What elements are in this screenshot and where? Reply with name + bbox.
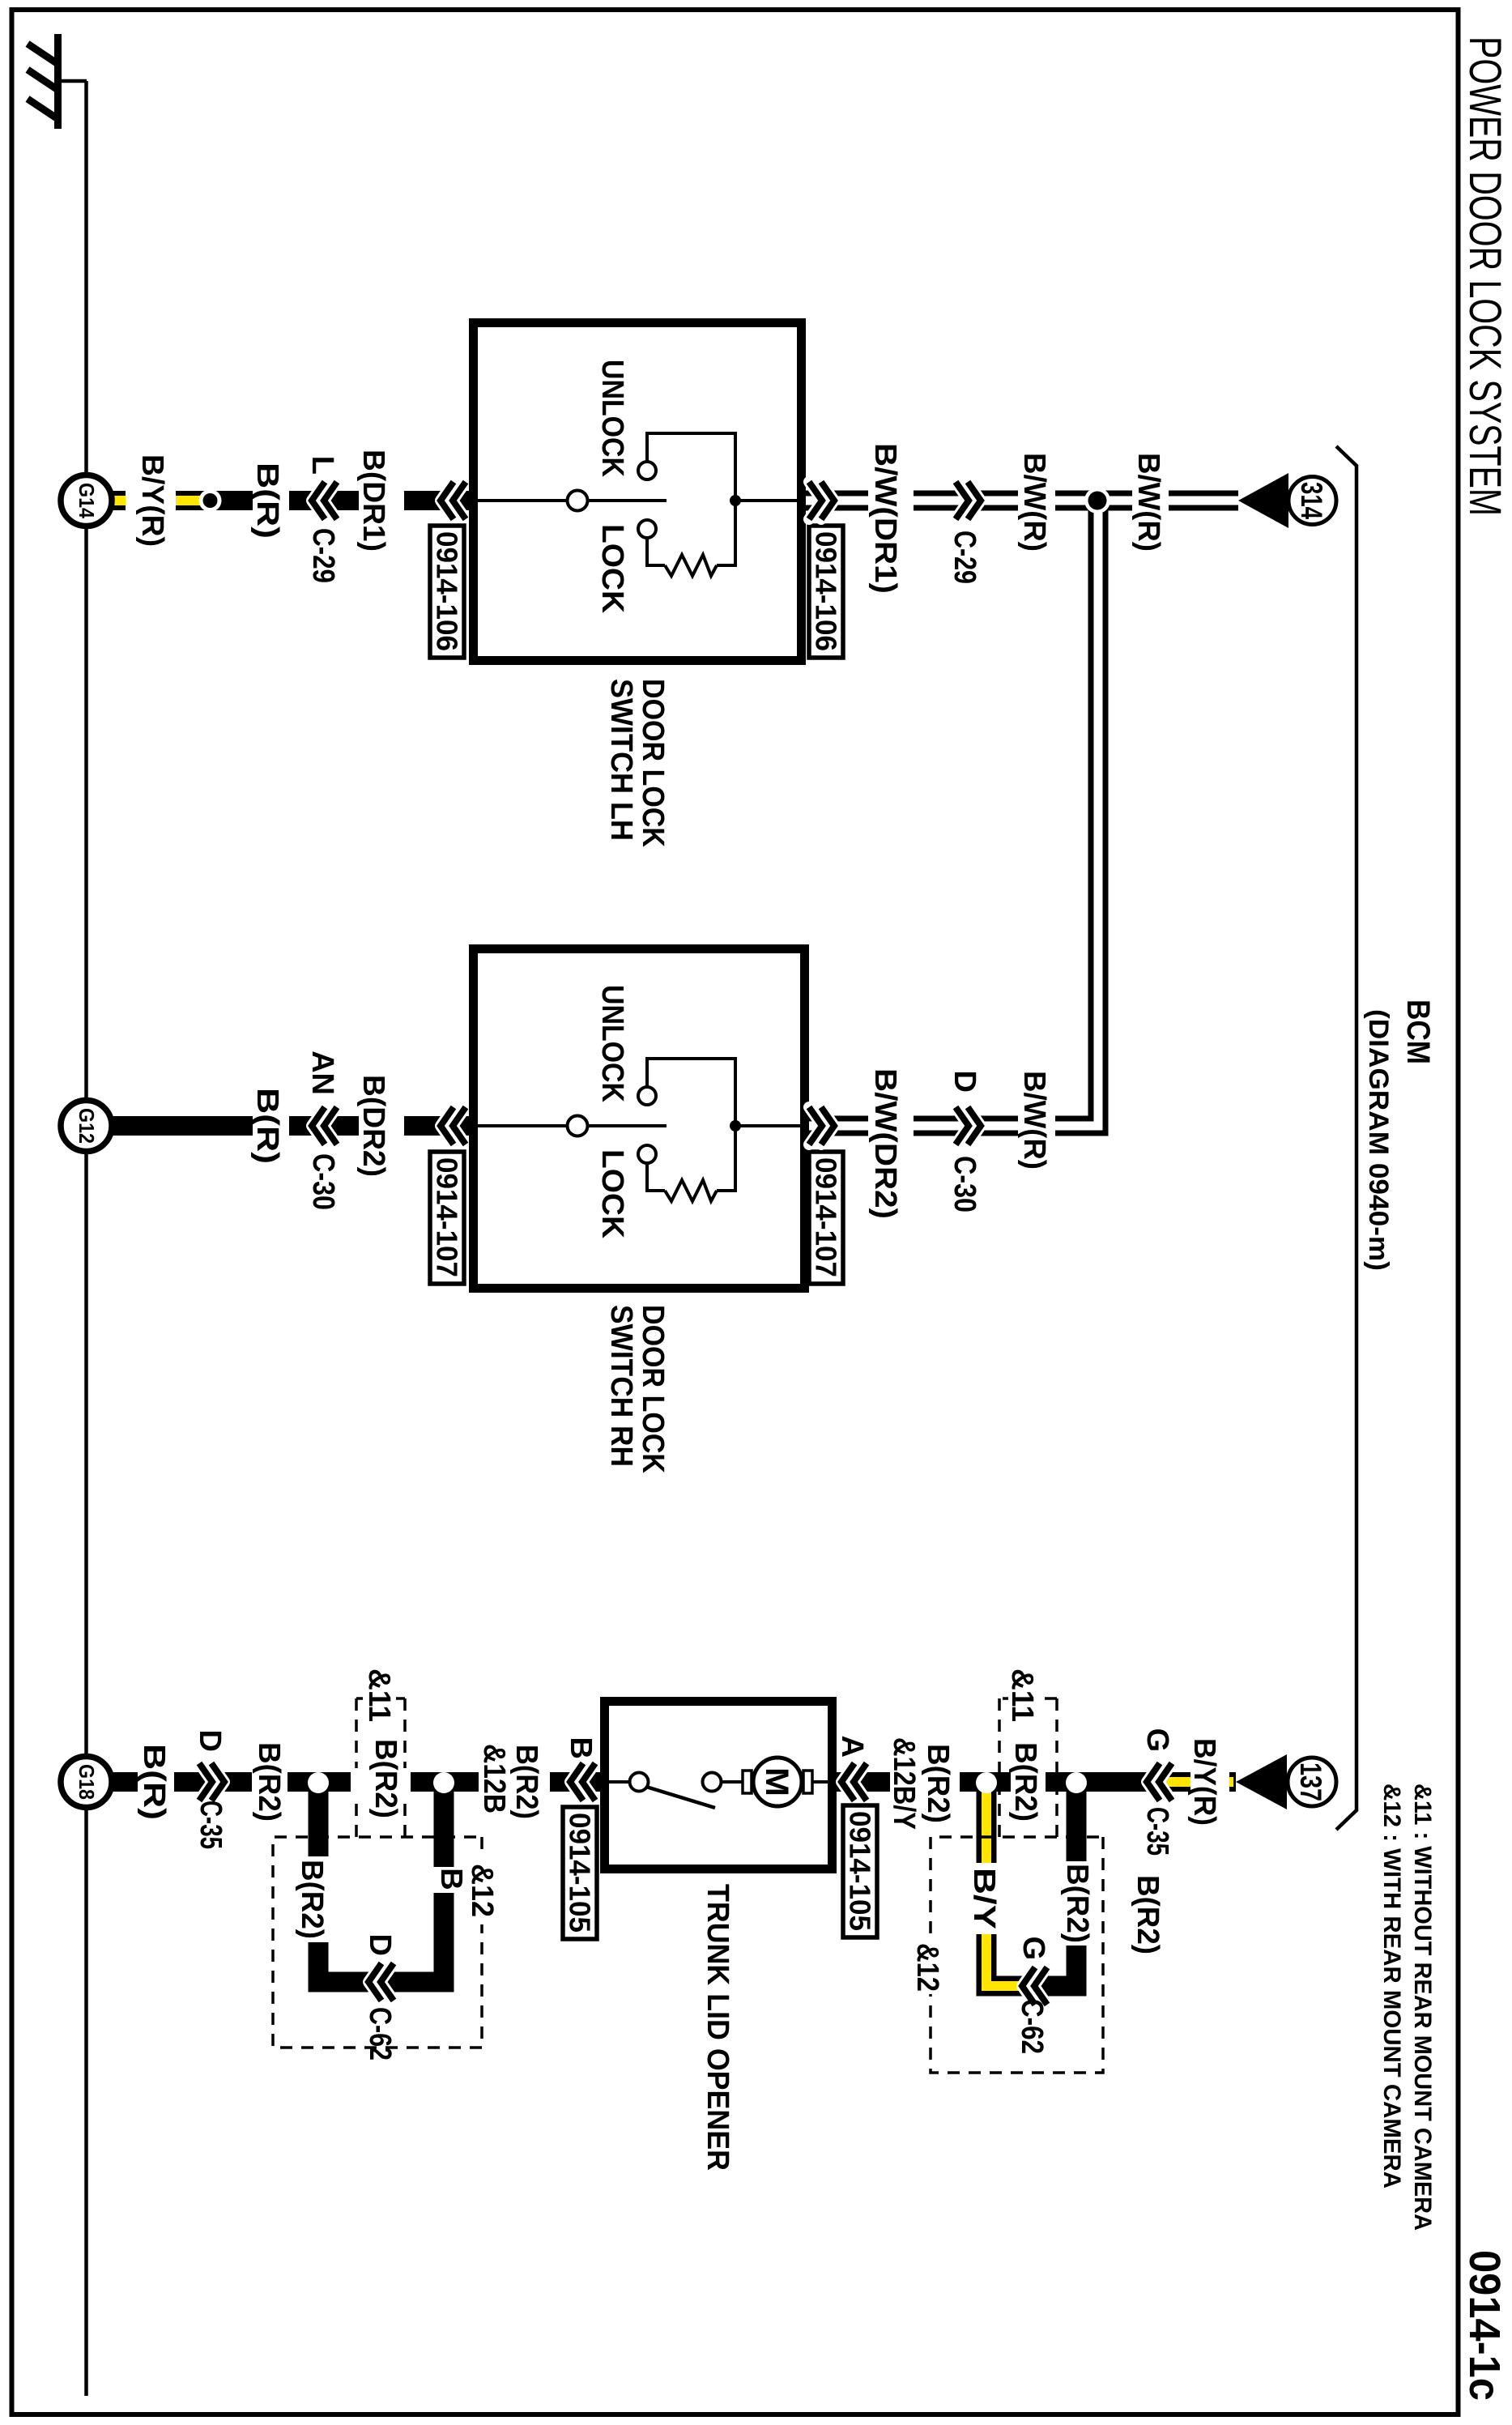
connector label 0914-105 (bottom) bbox=[563, 1807, 597, 1939]
svg-text:DOOR LOCK: DOOR LOCK bbox=[636, 679, 670, 847]
wire gap for label B(DR2) bbox=[359, 1112, 404, 1140]
svg-text:A: A bbox=[835, 1736, 869, 1758]
LOCK contact circle RH bbox=[638, 1145, 656, 1163]
svg-text:B/Y(R): B/Y(R) bbox=[1187, 1738, 1221, 1826]
connector C-35 chevron (ground side) bbox=[199, 1763, 224, 1801]
trunk switch blade bbox=[646, 1787, 715, 1808]
splice dot on B/Y(R) bbox=[199, 489, 222, 512]
connector 0914-106 exit chevron bbox=[809, 482, 834, 519]
switch arm bbox=[588, 499, 667, 502]
svg-text:&11 : WITHOUT REAR MOUNT CAMER: &11 : WITHOUT REAR MOUNT CAMERA bbox=[1409, 1784, 1436, 2231]
pin D label C-62 left bbox=[363, 1934, 397, 1956]
label &12 (right) bbox=[910, 1937, 945, 1994]
label B/W(DR1) bbox=[868, 443, 902, 594]
svg-text:SWITCH RH: SWITCH RH bbox=[604, 1305, 638, 1467]
connector label 0914-106 (bottom) bbox=[430, 526, 464, 658]
pin L label bbox=[305, 456, 339, 475]
svg-text:B(DR1): B(DR1) bbox=[356, 450, 390, 552]
svg-text:B(R2): B(R2) bbox=[1131, 1875, 1165, 1954]
connector label 0914-107 (bottom) bbox=[430, 1152, 464, 1284]
svg-text:LOCK: LOCK bbox=[595, 524, 629, 614]
trunk switch contact 1 bbox=[630, 1773, 649, 1792]
svg-text:C-29: C-29 bbox=[306, 528, 340, 583]
connector name C-29 (BCM side) bbox=[948, 531, 982, 584]
connector 0914-107 exit chevron bbox=[809, 1107, 834, 1144]
wire gap for label B/W(DR1) bbox=[868, 486, 914, 515]
svg-text:B(R): B(R) bbox=[137, 1744, 171, 1820]
wire gap for label &11 B(R2) trunk bbox=[351, 1768, 411, 1796]
svg-text:B/W(R): B/W(R) bbox=[1017, 1071, 1051, 1170]
&12 loop left: wire B(R2) from junctions to C-62 bbox=[318, 1783, 444, 1982]
ground node G12 bbox=[61, 1101, 112, 1152]
resistor R (door lock switch LH) bbox=[665, 555, 717, 576]
connector name C-62 left bbox=[363, 2007, 397, 2061]
connector C-62 chevron (left loop) bbox=[368, 1963, 394, 2001]
pin AN label bbox=[305, 1051, 339, 1095]
pin B label trunk bbox=[564, 1737, 598, 1759]
connector C-29 chevron (BCM side) bbox=[956, 482, 981, 519]
component name TRUNK LID OPENER bbox=[701, 1884, 735, 2171]
svg-text:C-62: C-62 bbox=[1015, 1999, 1049, 2054]
label B(R2) in &11 box right bbox=[1008, 1742, 1042, 1822]
wire resistor to junction bbox=[717, 501, 735, 565]
motor M circle bbox=[753, 1758, 802, 1806]
wire gap for label &11 B(R2) right bbox=[1011, 1768, 1046, 1796]
svg-text:B/W(R): B/W(R) bbox=[1017, 453, 1051, 552]
svg-text:&12 : WITH REAR MOUNT CAMERA: &12 : WITH REAR MOUNT CAMERA bbox=[1378, 1784, 1405, 2188]
trunk lid opener box bbox=[605, 1702, 833, 1869]
switch arm RH bbox=[588, 1124, 667, 1127]
svg-text:DOOR LOCK: DOOR LOCK bbox=[636, 1305, 670, 1473]
label &12 (left) bbox=[465, 1858, 500, 1924]
dashed box &12 (left) bbox=[273, 1837, 482, 2048]
pin G label C-62 right bbox=[1016, 1936, 1050, 1960]
connector label 0914-106 (top) bbox=[809, 526, 843, 658]
&12 loop right: wire B/Y and B(R2) to C-62 bbox=[986, 1783, 1076, 1986]
svg-text:C-30: C-30 bbox=[948, 1156, 982, 1212]
svg-text:B(R2): B(R2) bbox=[921, 1744, 955, 1823]
label &11 (right) bbox=[1005, 1662, 1039, 1725]
label B(R2) on right loop bbox=[1060, 1864, 1094, 1943]
wire gap for label B/W(R) bbox=[1018, 486, 1055, 515]
svg-text:L: L bbox=[305, 456, 339, 475]
dashed box &11 (left) bbox=[356, 1698, 405, 1837]
label B(R2) in &11 box left bbox=[368, 1739, 402, 1818]
interior wire entry to contact trunk bbox=[605, 1780, 629, 1784]
connector 0914-105 exit chevron bbox=[841, 1763, 867, 1801]
svg-text:(DIAGRAM 0940-m): (DIAGRAM 0940-m) bbox=[1363, 1009, 1394, 1271]
svg-text:G18: G18 bbox=[75, 1764, 99, 1800]
svg-text:B/Y(R): B/Y(R) bbox=[135, 454, 169, 547]
label B/W(R) bbox=[1017, 453, 1051, 552]
label B/Y bbox=[967, 1868, 1001, 1929]
component name DOOR LOCK SWITCH RH bbox=[604, 1305, 670, 1473]
wire gap for label B(R) trunk bbox=[138, 1768, 174, 1796]
LOCK contact circle bbox=[638, 520, 656, 538]
interior wire junction to exit bbox=[735, 499, 801, 502]
svg-text:C-30: C-30 bbox=[306, 1153, 340, 1210]
svg-text:&12: &12 bbox=[465, 1864, 499, 1917]
connector 0914-107 entry chevron bbox=[441, 1107, 466, 1144]
LOCK contact wire bbox=[647, 538, 665, 565]
svg-text:B(R): B(R) bbox=[250, 1088, 284, 1164]
connector 0914-105 entry chevron bbox=[570, 1763, 595, 1801]
common contact circle RH bbox=[568, 1116, 588, 1136]
svg-text:B: B bbox=[434, 1868, 468, 1890]
svg-text:B(R2): B(R2) bbox=[252, 1742, 286, 1822]
svg-text:0914-1c: 0914-1c bbox=[1460, 2250, 1509, 2401]
circle reference 314 bbox=[1288, 477, 1336, 525]
connector name C-35 (BCM side) bbox=[1140, 1807, 1174, 1856]
svg-text:&12B/Y: &12B/Y bbox=[887, 1737, 921, 1830]
arrow to 137 bbox=[1236, 1754, 1287, 1809]
yellow stripe B/Y(R) trunk top bbox=[1158, 1777, 1233, 1787]
svg-text:B/W(DR1): B/W(DR1) bbox=[868, 443, 902, 594]
svg-text:G12: G12 bbox=[75, 1108, 99, 1144]
connector label 0914-105 (top) bbox=[843, 1805, 877, 1937]
connector label 0914-107 (top) bbox=[809, 1152, 843, 1284]
svg-text:G: G bbox=[1016, 1936, 1050, 1960]
dashed box &12 (right) bbox=[931, 1837, 1103, 2073]
svg-text:B(R2): B(R2) bbox=[368, 1739, 402, 1818]
UNLOCK contact wire to junction bbox=[647, 433, 735, 501]
wire gap for labels B(R2) / &12B/Y bbox=[890, 1768, 960, 1796]
common contact circle bbox=[568, 491, 588, 511]
svg-text:&11: &11 bbox=[362, 1669, 396, 1722]
label B/W(R) RH bbox=[1017, 1071, 1051, 1170]
svg-text:0914-106: 0914-106 bbox=[810, 531, 843, 651]
note &12 with rear mount camera bbox=[1378, 1784, 1405, 2188]
svg-text:B(R2): B(R2) bbox=[1008, 1742, 1042, 1822]
label B(R) RH bbox=[250, 1088, 284, 1164]
label B(R2) trunk lower bbox=[252, 1742, 286, 1822]
wire resistor to junction RH bbox=[717, 1126, 735, 1191]
connector C-29 chevron (ground side) bbox=[312, 482, 337, 519]
title: POWER DOOR LOCK SYSTEM bbox=[1460, 36, 1511, 516]
wire gap for label B(R) bbox=[253, 487, 289, 514]
svg-text:&11: &11 bbox=[1005, 1669, 1039, 1722]
svg-text:M: M bbox=[759, 1767, 794, 1796]
svg-text:B(R2): B(R2) bbox=[509, 1745, 543, 1819]
connector C-30 chevron (BCM side) bbox=[956, 1107, 981, 1144]
svg-text:B(R2): B(R2) bbox=[1060, 1864, 1094, 1943]
UNLOCK contact circle bbox=[638, 462, 656, 479]
wire gap for labels B(R2) / &12B bbox=[479, 1768, 550, 1796]
svg-text:137: 137 bbox=[1294, 1762, 1327, 1801]
junction dot C trunk bbox=[976, 1772, 997, 1793]
label &12B bbox=[477, 1744, 511, 1813]
svg-text:G14: G14 bbox=[75, 483, 99, 518]
wire gap for label B/W(DR2) bbox=[868, 1111, 914, 1140]
label B(R2) on loop bbox=[295, 1860, 329, 1939]
wire gap for label B/Y(R) trunk bbox=[1190, 1768, 1229, 1796]
label B(R2) above junction D bbox=[1131, 1875, 1165, 1954]
wire gap for label B/W(R) RH bbox=[1018, 1111, 1055, 1140]
svg-text:0914-105: 0914-105 bbox=[564, 1813, 597, 1933]
wire B(R)/B(DR2) from G12 to door lock switch RH bbox=[113, 1116, 469, 1136]
svg-text:C-62: C-62 bbox=[363, 2007, 397, 2061]
resistor R (door lock switch RH) bbox=[665, 1180, 717, 1201]
junction dot A trunk bbox=[308, 1772, 329, 1793]
svg-text:B(DR2): B(DR2) bbox=[356, 1075, 390, 1177]
UNLOCK contact circle RH bbox=[638, 1087, 656, 1105]
wire B/W from switch LH to BCM (vertical) bbox=[806, 491, 1240, 511]
svg-text:AN: AN bbox=[305, 1051, 339, 1095]
svg-text:D: D bbox=[193, 1730, 227, 1752]
wire B(R)/B(R2) from G18 to trunk lid opener bbox=[113, 1772, 600, 1792]
wire gap for label B/Y(R) bbox=[126, 487, 176, 514]
svg-text:LOCK: LOCK bbox=[595, 1149, 629, 1239]
wire B(R2)/B/Y(R) from trunk lid opener to BCM bbox=[837, 1772, 1236, 1792]
junction dot B trunk bbox=[433, 1772, 454, 1793]
pin G label C-35 bbox=[1140, 1728, 1174, 1752]
wire gap for label B on loop bbox=[433, 1867, 455, 1893]
label B pin on loop bbox=[434, 1868, 468, 1890]
svg-text:UNLOCK: UNLOCK bbox=[595, 985, 629, 1102]
wire gap for label B(R2) on right loop bbox=[1065, 1861, 1088, 1946]
svg-text:0914-107: 0914-107 bbox=[810, 1157, 843, 1277]
branch wire B/W(R) from RH switch joining LH wire bbox=[809, 501, 1098, 1126]
note &11 without rear mount camera bbox=[1409, 1784, 1436, 2231]
svg-text:314: 314 bbox=[1295, 482, 1328, 519]
svg-text:C-35: C-35 bbox=[194, 1801, 228, 1849]
svg-text:0914-106: 0914-106 bbox=[431, 531, 464, 651]
pin A label trunk bbox=[835, 1736, 869, 1758]
interior junction dot RH bbox=[730, 1120, 741, 1132]
label &11 (left) bbox=[362, 1662, 396, 1725]
BCM bracket bbox=[1336, 446, 1357, 1830]
label B(DR1) bbox=[356, 450, 390, 552]
connector name C-35 bbox=[194, 1801, 228, 1849]
motor brush upper bbox=[803, 1771, 812, 1793]
svg-text:SWITCH LH: SWITCH LH bbox=[604, 679, 638, 841]
svg-text:&12B: &12B bbox=[477, 1744, 511, 1813]
svg-text:C-35: C-35 bbox=[1140, 1807, 1174, 1856]
junction dot D trunk bbox=[1066, 1772, 1087, 1793]
svg-text:B/Y: B/Y bbox=[967, 1868, 1001, 1929]
svg-text:D: D bbox=[363, 1934, 397, 1956]
interior wire from entry to common contact bbox=[474, 499, 566, 502]
label B/W(DR2) bbox=[868, 1068, 902, 1219]
ground bus wire bbox=[84, 81, 88, 2396]
pin D label C-30 bbox=[948, 1071, 982, 1093]
yellow stripe on right loop bbox=[986, 1783, 1025, 1986]
svg-text:B: B bbox=[564, 1737, 598, 1759]
BCM label bbox=[1400, 999, 1436, 1064]
UNLOCK contact wire RH bbox=[647, 1059, 735, 1126]
svg-text:G: G bbox=[1140, 1728, 1174, 1752]
label B/Y(R) bbox=[135, 454, 169, 547]
ground symbol (chassis ground) bbox=[28, 34, 87, 129]
pin D label C-35 bbox=[193, 1730, 227, 1752]
label B(DR2) bbox=[356, 1075, 390, 1177]
svg-text:POWER DOOR LOCK SYSTEM: POWER DOOR LOCK SYSTEM bbox=[1460, 36, 1511, 516]
connector name C-29 bbox=[306, 528, 340, 583]
svg-text:D: D bbox=[948, 1071, 982, 1093]
svg-text:BCM: BCM bbox=[1400, 999, 1436, 1064]
connector C-35 chevron (BCM side) bbox=[1147, 1763, 1172, 1801]
label B(R) trunk bbox=[137, 1744, 171, 1820]
connector C-30 chevron (ground side) bbox=[312, 1107, 337, 1144]
connector name C-30 bbox=[306, 1153, 340, 1210]
connector 0914-106 entry chevron bbox=[441, 482, 466, 519]
svg-text:&12: &12 bbox=[910, 1943, 944, 1992]
label B(R2) upper trunk bbox=[921, 1744, 955, 1823]
BCM diagram reference label bbox=[1363, 1009, 1394, 1271]
ground node G14 bbox=[61, 475, 112, 526]
wire gap for label B(DR1) bbox=[359, 487, 404, 514]
wire gap for label B(R2) on loop bbox=[306, 1856, 330, 1942]
wire gap for label B(R) RH bbox=[253, 1112, 289, 1140]
circle reference 137 bbox=[1288, 1758, 1336, 1806]
ground node G18 bbox=[61, 1757, 112, 1808]
label &12B/Y bbox=[887, 1737, 921, 1830]
svg-text:UNLOCK: UNLOCK bbox=[595, 360, 629, 477]
wire gap for label B/W(R) upper bbox=[1132, 486, 1169, 515]
svg-text:0914-107: 0914-107 bbox=[431, 1157, 464, 1277]
arrow to 314 bbox=[1238, 473, 1288, 528]
door lock switch RH box bbox=[474, 949, 805, 1289]
svg-text:TRUNK LID OPENER: TRUNK LID OPENER bbox=[701, 1884, 735, 2171]
interior wire contact to motor bbox=[722, 1780, 743, 1784]
interior wire motor to exit bbox=[812, 1780, 832, 1784]
door lock switch LH box bbox=[474, 323, 802, 661]
svg-text:0914-105: 0914-105 bbox=[844, 1811, 877, 1931]
label B(R) bbox=[250, 462, 284, 539]
interior wire junction to exit RH bbox=[735, 1124, 801, 1127]
label LOCK RH bbox=[595, 1149, 629, 1239]
interior junction dot bbox=[730, 495, 741, 506]
svg-text:C-29: C-29 bbox=[948, 531, 982, 584]
svg-text:B/W(R): B/W(R) bbox=[1131, 453, 1165, 552]
svg-text:B(R): B(R) bbox=[250, 462, 284, 539]
trunk switch contact 2 bbox=[703, 1773, 722, 1792]
motor brush lower bbox=[743, 1771, 752, 1793]
junction dot B/W(R) node bbox=[1084, 488, 1110, 514]
wire gap for label B/Y bbox=[975, 1863, 998, 1934]
connector name C-62 right bbox=[1015, 1999, 1049, 2054]
dashed box &11 (right) bbox=[999, 1698, 1057, 1837]
LOCK contact wire RH bbox=[647, 1163, 665, 1191]
interior wire from entry to common contact RH bbox=[474, 1124, 566, 1127]
page number 0914-1c bbox=[1460, 2250, 1509, 2401]
connector name C-30 (BCM side) bbox=[948, 1156, 982, 1212]
label UNLOCK bbox=[595, 360, 629, 477]
svg-text:B/W(DR2): B/W(DR2) bbox=[868, 1068, 902, 1219]
wire gap for label B(R2) trunk lower bbox=[252, 1768, 287, 1796]
label B/W(R) upper bbox=[1131, 453, 1165, 552]
connector C-62 chevron (right loop) bbox=[1022, 1967, 1047, 2005]
label UNLOCK RH bbox=[595, 985, 629, 1102]
svg-text:B(R2): B(R2) bbox=[295, 1860, 329, 1939]
wire B/Y(R) yellow stripe bbox=[113, 496, 208, 505]
label B/Y(R) trunk bbox=[1187, 1738, 1221, 1826]
label B(R2) trunk entry bbox=[509, 1745, 543, 1819]
component name DOOR LOCK SWITCH LH bbox=[604, 679, 670, 847]
label LOCK bbox=[595, 524, 629, 614]
wire B(R)/B(DR1) from G14 to door lock switch LH bbox=[113, 491, 469, 510]
